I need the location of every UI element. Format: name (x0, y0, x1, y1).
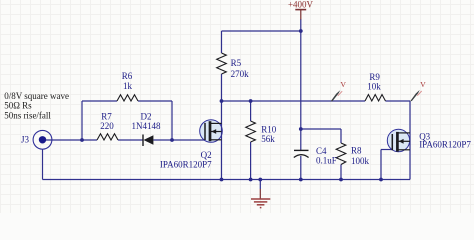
svg-text:0/8V square wave: 0/8V square wave (4, 91, 69, 101)
svg-text:IPA60R120P7: IPA60R120P7 (419, 140, 471, 150)
probe 2 red accent (417, 91, 421, 96)
connector J3 outer circle (33, 130, 52, 149)
svg-text:270k: 270k (231, 69, 250, 79)
probe 1 red accent (338, 91, 342, 96)
wire node A rail (222, 100, 366, 102)
capacitor C4 bottom curved plate (294, 155, 309, 158)
junction +400V branch (299, 29, 303, 33)
wire R9 to Q3 drain (386, 100, 411, 102)
wire C4 bottom pin (300, 156, 302, 180)
svg-text:Q2: Q2 (201, 150, 212, 160)
resistor R6 zigzag (117, 95, 138, 101)
svg-text:220: 220 (100, 121, 114, 131)
diode D2 triangle (144, 135, 154, 145)
wire J3 to R7 (43, 139, 98, 141)
transistor Q2 internals (205, 121, 222, 141)
resistor R9 zigzag (365, 95, 386, 102)
junction Q2 source on rail (220, 178, 224, 182)
resistor R5 zigzag (217, 53, 227, 74)
wire ground rail (43, 179, 411, 181)
wire R7 to D2 (118, 139, 143, 141)
wire R10 bottom pin (250, 142, 252, 180)
wire branch to R8 (301, 128, 341, 130)
svg-text:R8: R8 (351, 146, 362, 156)
svg-text:+400V: +400V (288, 0, 314, 10)
wire R6 right riser down (171, 101, 173, 140)
junction at J3 node (80, 138, 84, 142)
junction node A / R5 bottom (220, 99, 224, 103)
wire top link to +400V (222, 30, 301, 32)
svg-text:1N4148: 1N4148 (132, 121, 161, 131)
svg-text:C4: C4 (316, 146, 327, 156)
wire R8 bottom pin (340, 165, 342, 180)
svg-text:D2: D2 (141, 112, 152, 122)
svg-text:100k: 100k (351, 156, 370, 166)
power port +400V stem (300, 10, 302, 20)
junction ground stem on rail (258, 178, 262, 182)
svg-text:J3: J3 (21, 134, 30, 144)
transistor Q2 body circle (200, 120, 223, 143)
junction R10 top (249, 99, 253, 103)
junction Q3 gate on rail (379, 178, 383, 182)
svg-text:V: V (420, 80, 426, 89)
wire Q2 drain-source column (221, 101, 223, 180)
svg-text:R9: R9 (369, 72, 380, 82)
junction C4 bottom on rail (299, 178, 303, 182)
resistor R10 zigzag (246, 121, 256, 142)
svg-text:10k: 10k (367, 82, 381, 92)
wire J3 shield down (42, 149, 44, 180)
ground stem lower (259, 189, 261, 199)
wire +400V column (300, 19, 302, 129)
resistor R8 zigzag (336, 143, 346, 165)
svg-text:0.1uF: 0.1uF (316, 156, 337, 166)
wire R6 to right corner (138, 100, 172, 102)
wire R8 top pin (340, 129, 342, 143)
transistor Q3 body circle (387, 129, 409, 151)
ground bars (251, 199, 270, 208)
connector J3 center pin (39, 136, 46, 143)
svg-text:1k: 1k (123, 81, 133, 91)
wire Q3 gate down (380, 150, 382, 180)
svg-text:R10: R10 (261, 125, 277, 135)
svg-text:50Ω Rs: 50Ω Rs (4, 100, 32, 110)
ground stem upper (259, 180, 261, 190)
svg-text:R6: R6 (122, 71, 133, 81)
wire R5 bottom pin (221, 74, 223, 101)
svg-text:56k: 56k (261, 134, 275, 144)
diode D2 cathode bar (142, 135, 144, 147)
wire C4 top pin (300, 129, 302, 150)
svg-text:V: V (340, 80, 346, 89)
resistor R7 zigzag (97, 134, 118, 140)
wire Q3 drain-source column (409, 101, 411, 180)
svg-text:IPA60R120P7: IPA60R120P7 (160, 160, 212, 170)
junction C4/R8 branch (299, 127, 303, 131)
wire R10 top pin (250, 101, 252, 121)
junction R8 bottom on rail (339, 178, 343, 182)
wire D2 to Q2 gate (154, 139, 205, 141)
svg-text:R5: R5 (231, 58, 242, 68)
svg-text:50ns rise/fall: 50ns rise/fall (4, 110, 51, 120)
probe 2 body (410, 90, 420, 101)
probe 1 body (331, 90, 341, 101)
power port +400V bar (295, 9, 306, 11)
svg-text:R7: R7 (101, 112, 112, 122)
junction R10 bottom on rail (249, 178, 253, 182)
wire R5 top pin (221, 31, 223, 53)
transistor Q3 internals (392, 132, 410, 152)
capacitor C4 top plate (294, 149, 309, 151)
wire riser to R6 (82, 100, 117, 102)
wire node to R6 left riser (81, 101, 83, 140)
junction at Q2 gate node (170, 138, 174, 142)
wire Q3 gate horizontal (381, 149, 392, 151)
